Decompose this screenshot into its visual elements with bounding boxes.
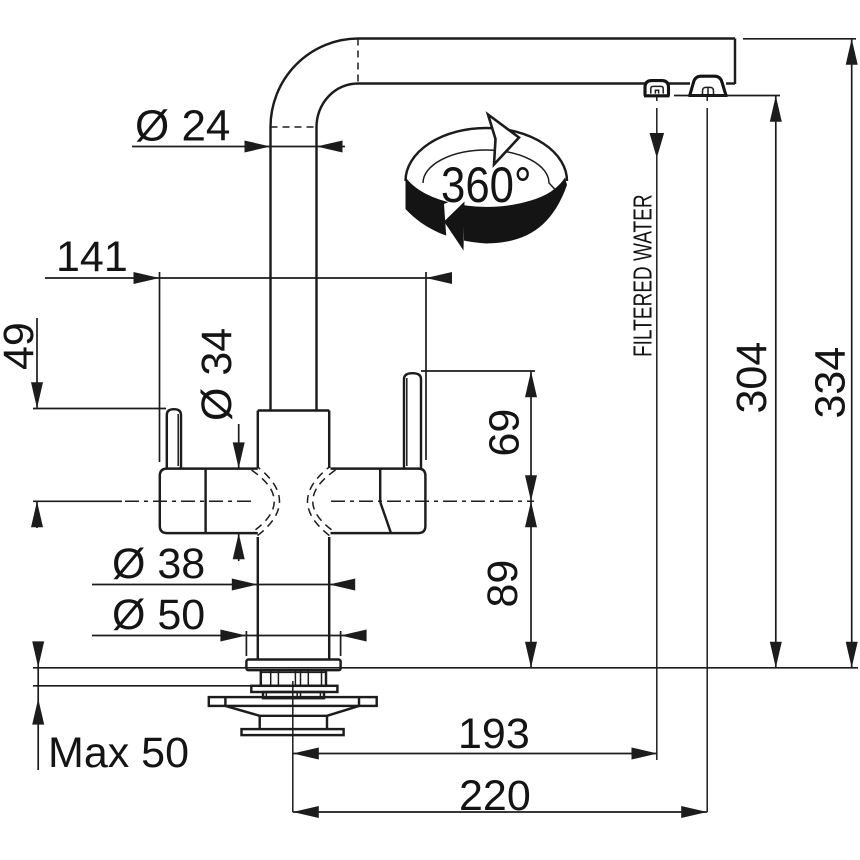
spout vertical pipe right edge — [315, 127, 317, 411]
360 symbol black band — [406, 177, 568, 244]
lower cylinder — [260, 715, 327, 717]
svg-text:360°: 360° — [441, 156, 531, 212]
svg-text:304: 304 — [728, 342, 776, 414]
washer — [251, 686, 337, 692]
main aerator — [690, 76, 726, 95]
spout vertical pipe left edge — [269, 127, 271, 411]
valve cone hidden dashed left — [252, 470, 275, 533]
spout bend tangent dashed vertical — [357, 39, 359, 84]
mounting plate — [209, 697, 377, 706]
filtered water aerator — [645, 81, 669, 96]
360 symbol inner top arc — [423, 150, 556, 190]
lower shank block — [263, 692, 324, 698]
spout right end edge — [734, 39, 736, 85]
360 symbol outer top arc — [406, 128, 568, 181]
svg-text:Ø 50: Ø 50 — [112, 591, 205, 639]
body column right edge lower — [328, 537, 330, 660]
svg-text:89: 89 — [479, 560, 527, 608]
left handle body — [160, 469, 258, 533]
skirt diagonals — [225, 706, 259, 716]
body column right edge upper — [328, 411, 330, 469]
valve cone hidden dashed right — [313, 470, 336, 533]
shank nut block — [261, 670, 326, 686]
countertop line — [33, 667, 858, 669]
right handle diagonal — [380, 502, 391, 533]
body column left edge lower — [257, 537, 259, 660]
svg-text:193: 193 — [458, 710, 530, 758]
spout horizontal top edge — [358, 37, 735, 39]
svg-text:Ø 38: Ø 38 — [112, 540, 205, 588]
spout elbow outer arc — [271, 39, 359, 128]
handle centerline left — [125, 500, 256, 502]
left handle divider — [204, 469, 206, 533]
body shoulder step — [258, 409, 329, 411]
main outlet centerline — [706, 97, 708, 101]
right handle lever — [404, 373, 421, 468]
360 symbol white gap behind black arrowhead — [444, 196, 464, 257]
spout elbow inner arc — [317, 84, 359, 128]
base flange — [246, 660, 340, 671]
flow arrow — [650, 133, 665, 158]
left handle lever — [167, 409, 181, 468]
body column left edge upper — [257, 411, 259, 469]
svg-text:Max 50: Max 50 — [48, 729, 189, 777]
svg-text:69: 69 — [481, 409, 529, 457]
svg-text:Ø 34: Ø 34 — [193, 328, 241, 421]
svg-text:Ø 24: Ø 24 — [135, 102, 230, 151]
filtered water outlet centerline — [656, 97, 658, 101]
spout bend tangent dashed horizontal — [271, 126, 317, 128]
spout top extension line — [743, 38, 856, 40]
right handle body — [331, 469, 426, 533]
360 symbol black arrowhead — [444, 202, 465, 251]
under-counter line — [33, 685, 251, 687]
360 symbol white arrowhead — [488, 115, 519, 165]
bottom ring — [242, 729, 344, 735]
svg-text:FILTERED WATER: FILTERED WATER — [628, 194, 658, 357]
right handle divider — [379, 469, 381, 502]
svg-text:334: 334 — [807, 347, 855, 419]
spout horizontal bottom edge segments — [358, 82, 645, 84]
base centerline — [292, 681, 294, 812]
svg-text:141: 141 — [56, 233, 128, 281]
aerator bottom extension line — [674, 95, 780, 97]
handle centerline right — [331, 500, 534, 502]
